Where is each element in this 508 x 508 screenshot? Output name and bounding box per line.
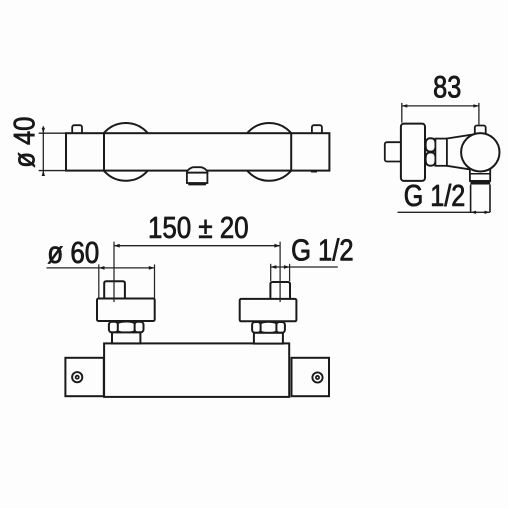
tab under bar: [311, 171, 317, 173]
taper body: [447, 134, 477, 170]
spout dome: [187, 167, 208, 173]
ext line 83 right: [478, 103, 480, 125]
extension line top: [39, 132, 66, 134]
screw left outer: [72, 372, 82, 382]
dim text "150 ± 20": [150, 217, 248, 239]
left connector stub: [104, 281, 125, 298]
hose upper block: [470, 167, 490, 181]
ext line ø60 left: [98, 264, 100, 298]
left escutcheon: [97, 299, 155, 322]
right plate: [292, 358, 330, 396]
right lower collar: [254, 333, 283, 344]
leader G1/2 bottom: [271, 266, 338, 268]
arrow G1/2 side left: [471, 211, 477, 214]
right hex nut right facet: [276, 322, 285, 333]
bar (bottom view): [104, 343, 289, 397]
ext G1/2 right: [289, 264, 291, 281]
dim line ø40: [42, 126, 44, 174]
ext line 150 right: [279, 242, 281, 302]
dim text "83": [434, 76, 460, 98]
screw right outer: [312, 372, 322, 382]
joint line left: [103, 133, 105, 170]
left knob circle: [97, 123, 155, 181]
wall flange: [401, 124, 425, 181]
spout body: [187, 173, 208, 183]
extension line bottom: [39, 170, 66, 172]
ext line 83 left: [401, 103, 403, 123]
button left: [72, 125, 82, 134]
dim text "G 1/2" (bottom): [292, 238, 352, 260]
arrow G1/2 bottom right: [284, 265, 290, 269]
right escutcheon: [240, 299, 297, 321]
hex nut lower barrel: [426, 152, 436, 165]
right hex nut left facet: [252, 322, 261, 333]
arrow 150 right: [274, 244, 280, 248]
dim text "ø 60": [48, 242, 98, 264]
arrow 83 right: [473, 104, 479, 107]
bar body: [66, 133, 329, 170]
knob circle (side): [461, 133, 499, 171]
left hex nut middle facet: [116, 322, 136, 333]
left hex nut right facet: [135, 322, 144, 333]
spout dark base: [187, 183, 207, 186]
joint line right: [290, 133, 292, 170]
inlet stub: [385, 142, 402, 161]
arrow G1/2 bottom left: [271, 265, 277, 269]
arrow ø40 bottom: [42, 171, 45, 176]
hose pipe: [471, 185, 490, 213]
hex nut upper barrel: [426, 138, 436, 151]
cylinder section: [435, 139, 447, 166]
leader line G1/2 side: [398, 211, 491, 213]
arrow ø60 right: [149, 266, 155, 270]
ext line ø60 right: [154, 264, 156, 298]
screw left inner: [76, 376, 79, 379]
dim line 150: [114, 245, 280, 247]
left hex nut left facet: [109, 322, 118, 333]
arrow 83 left: [402, 104, 408, 107]
right knob circle: [240, 123, 298, 181]
dim line 83: [402, 105, 479, 107]
hose dark band: [470, 181, 490, 185]
button (side): [475, 126, 486, 136]
dim line ø60: [47, 267, 155, 269]
ext line 150 left: [113, 242, 115, 302]
right hex nut middle facet: [259, 322, 278, 333]
arrow G1/2 side right: [485, 211, 491, 214]
hose joint line: [470, 173, 490, 175]
button right: [312, 125, 322, 134]
right connector stub: [270, 282, 290, 299]
screw right inner: [316, 376, 319, 379]
text G 1/2 (side): [405, 184, 464, 206]
dim text "ø 40" (rotated): [14, 118, 35, 168]
arrow ø40 top: [42, 128, 45, 133]
left lower collar: [112, 332, 140, 343]
left plate: [65, 358, 103, 396]
ext G1/2 left: [270, 264, 272, 281]
arrow 150 left: [114, 244, 120, 248]
arrow ø60 left: [99, 266, 105, 270]
